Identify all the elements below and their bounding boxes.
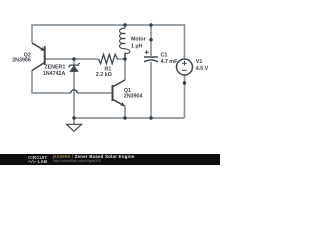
wire zener anode to ground node: [73, 71, 75, 124]
node dot C1 bottom junction: [149, 116, 152, 119]
svg-text:2N3904: 2N3904: [124, 93, 143, 99]
capacitor C1 curved bottom plate: [144, 60, 158, 62]
transistor Q2 (PNP 2N3906): [32, 43, 45, 71]
wire Q1 collector vertical: [124, 59, 126, 80]
zener triangle (anode, pointing up): [70, 66, 78, 72]
CircuitLab logo zigzag: [28, 160, 37, 162]
svg-text:V1: V1: [196, 59, 203, 65]
node dot rail-motor junction: [123, 23, 126, 26]
wire zener top lead: [73, 59, 75, 65]
svg-text:2.2 kΩ: 2.2 kΩ: [96, 72, 113, 78]
wire V1 bottom lead: [184, 75, 186, 118]
V1 plus mark: [182, 61, 187, 66]
voltage source V1 circle: [177, 59, 193, 75]
svg-text:4.7 mF: 4.7 mF: [161, 59, 179, 65]
transistor Q1 (NPN 2N3904): [113, 80, 126, 106]
wire Q2 collector down left side: [32, 70, 112, 93]
wire motor bottom lead: [124, 53, 126, 59]
wire C1 top lead: [150, 25, 152, 56]
node dot R1/motor/Q1 collector junction: [123, 57, 126, 60]
node dot rail-C1 junction: [149, 23, 152, 26]
node dot zener/base junction: [72, 57, 75, 60]
svg-text:http://circuitlab.com/c/gdd322: http://circuitlab.com/c/gdd322: [53, 159, 102, 163]
wire Q1 emitter vertical: [124, 106, 126, 118]
V1 minus mark: [182, 69, 187, 71]
node dot V1 bottom terminal: [183, 81, 186, 84]
footer black bar: [0, 154, 220, 165]
resistor R1 zigzag: [98, 54, 117, 63]
svg-text:ZENER1: ZENER1: [44, 64, 65, 70]
svg-text:C1: C1: [161, 53, 168, 59]
ground symbol: [67, 124, 82, 131]
wire bottom ground rail: [74, 117, 185, 119]
svg-text:1N4742A: 1N4742A: [43, 71, 66, 77]
svg-text:4.5 V: 4.5 V: [196, 66, 209, 72]
wire C1 bottom lead: [150, 62, 152, 118]
Q1 emitter arrow: [120, 102, 124, 106]
svg-text:Motor: Motor: [131, 37, 146, 43]
capacitor C1 top plate: [144, 56, 158, 58]
wire top rail V+: [32, 25, 185, 59]
inductor Motor coil loops: [120, 25, 130, 59]
svg-text:2N3906: 2N3906: [12, 58, 31, 64]
node dot Q1 emitter junction: [123, 116, 126, 119]
node dot C1 top terminal: [149, 38, 152, 41]
wire Q2 base to R1 node: [46, 58, 99, 60]
Q2 emitter arrow: [40, 47, 44, 51]
node dot ground junction: [72, 116, 75, 119]
wire R1 right to motor/Q1 node: [117, 58, 125, 60]
wire hop (no-connect crossover) at zener/base-wire crossing: [71, 90, 77, 93]
svg-text:1 μH: 1 μH: [131, 44, 143, 50]
svg-text:LAB: LAB: [38, 159, 48, 164]
zener diode ZENER1 (cathode bar with bent ends): [69, 63, 80, 67]
C1 plus polarity mark: [145, 50, 149, 54]
